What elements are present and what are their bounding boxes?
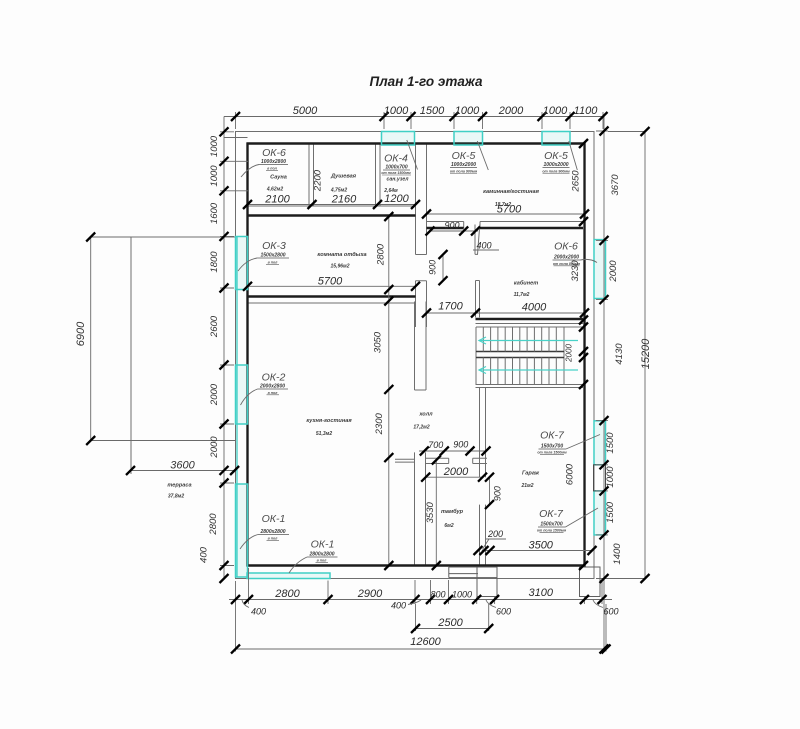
garage left wall [480,388,486,566]
5700 fireplace room [427,213,585,215]
6900 dim line [91,237,236,441]
svg-text:ОК-7: ОК-7 [540,430,565,442]
svg-text:1100: 1100 [574,105,599,117]
svg-text:2800х2800: 2800х2800 [308,552,334,558]
5700 rest room [248,285,416,287]
window OK-3 left [236,237,248,290]
stairs bottom wall [476,385,585,388]
bottom wall inner thick [247,564,586,566]
svg-text:ОК-5: ОК-5 [544,150,568,162]
svg-text:1000: 1000 [209,135,220,157]
tambour left wall [415,452,426,565]
wall sauna/shower [309,144,314,207]
cabinet left wall [476,281,480,318]
svg-text:1400: 1400 [612,543,623,565]
ticks stairs 2000 [579,347,588,356]
cabinet bottom thick [476,318,585,320]
ticks 6900 [86,233,95,242]
top wall inner thick [247,142,586,144]
svg-text:6900: 6900 [75,321,87,346]
svg-text:ОК-2: ОК-2 [262,372,286,384]
windows cyan [236,132,606,579]
ticks 5700 rest room [243,282,252,291]
svg-text:3100: 3100 [529,587,554,599]
svg-text:6м2: 6м2 [444,523,453,529]
svg-text:4130: 4130 [614,343,625,365]
svg-text:терраса: терраса [167,483,191,489]
svg-text:2600: 2600 [209,315,220,338]
svg-text:1600: 1600 [209,202,220,224]
terrace outline [131,237,236,471]
stair direction arrows cyan [479,337,578,374]
svg-text:3530: 3530 [425,502,436,524]
ticks row2 row3 [411,624,420,633]
3600 dim line [131,443,236,474]
3530 tambour [435,460,437,566]
svg-text:11,7м2: 11,7м2 [514,292,530,298]
svg-text:1000: 1000 [455,105,480,117]
bottom row3 12600 [236,604,607,652]
svg-text:2650: 2650 [571,170,582,193]
svg-text:2100: 2100 [264,194,290,206]
svg-text:5000: 5000 [293,105,318,117]
svg-text:кабинет: кабинет [514,280,538,287]
fireplace room bottom wall thin [427,222,585,229]
window callout OK-7 bottom [537,508,598,532]
svg-text:2160: 2160 [331,194,357,206]
fireplace room bottom thick [427,227,585,229]
svg-text:1500: 1500 [605,501,616,523]
top wall inner thin [248,206,416,216]
svg-text:51,3м2: 51,3м2 [316,431,332,437]
ticks top chain [231,112,608,121]
svg-text:каминная/гостиная: каминная/гостиная [483,189,540,195]
left chain line [223,117,225,579]
right chain2 extensions [596,131,608,579]
window OK-1 left [236,484,248,577]
sauna row dims 2100 2160 1200 [248,204,416,206]
svg-text:в пол: в пол [267,167,278,171]
svg-text:1700: 1700 [438,301,463,313]
svg-text:3050: 3050 [373,331,384,353]
svg-text:кухня-гостиная: кухня-гостиная [306,418,352,424]
ticks 900 door [426,227,435,236]
window OK-1 bottom [247,573,330,579]
svg-text:4,62м2: 4,62м2 [266,187,283,193]
svg-text:2500: 2500 [437,617,463,629]
ticks 3600 [126,466,135,475]
stairs [476,327,564,385]
svg-text:1000х700: 1000х700 [385,165,407,171]
left wall window sill line cyan [236,237,238,577]
cabinet bottom / stairs top [476,324,585,328]
svg-text:400: 400 [391,601,406,611]
700 900 hall [419,450,487,452]
svg-text:3500: 3500 [528,540,553,552]
900 fireplace door [430,230,478,232]
ticks sauna row [243,200,252,209]
svg-text:37,8м2: 37,8м2 [168,494,184,500]
window callout OK-7 top [537,430,600,455]
svg-text:1800: 1800 [209,251,220,273]
top chain line [224,116,604,118]
porch steps [449,567,600,597]
leaders bottom [242,539,603,608]
svg-text:900: 900 [444,221,459,231]
svg-text:1000: 1000 [452,590,472,600]
right chain2 labels [605,174,625,565]
top extension lines [236,112,604,129]
svg-text:800: 800 [430,590,445,600]
svg-text:сан.узел: сан.узел [386,177,409,183]
hall bottom stubs [395,458,487,463]
svg-text:3600: 3600 [170,460,195,472]
window callout OK-6 sauna [241,147,288,177]
svg-text:в пол: в пол [317,559,328,563]
svg-text:400: 400 [476,241,491,251]
svg-text:2800: 2800 [376,243,387,266]
svg-text:18,7м2: 18,7м2 [495,202,511,208]
svg-text:от пола 900мм: от пола 900мм [542,170,570,174]
wall wc/fireplace room + corridor wall [416,144,427,328]
svg-text:1000: 1000 [605,466,616,488]
right chain2 [603,117,605,650]
bottom row labels [251,587,619,648]
door triangle fireplace room [475,225,480,255]
svg-text:2,64м: 2,64м [383,188,398,194]
svg-text:1200: 1200 [384,193,409,205]
window callout OK-4 [381,140,417,175]
rest room bottom wall thin [248,302,416,304]
ticks 3530 [432,456,441,465]
ticks vertical 2800/3050/2300 [384,212,393,221]
svg-text:2000: 2000 [498,105,524,117]
ticks left chain [220,127,229,583]
window callout OK-1 left [240,513,289,549]
svg-text:4000: 4000 [522,302,547,314]
svg-text:2300: 2300 [374,413,385,436]
svg-text:ОК-7: ОК-7 [539,508,564,520]
window callout OK-2 [241,372,289,406]
svg-text:ОК-6: ОК-6 [554,241,578,253]
svg-text:400: 400 [251,607,266,617]
svg-text:2200: 2200 [313,169,324,192]
svg-text:6000: 6000 [565,463,576,485]
room labels [167,174,540,530]
svg-text:2000х2000: 2000х2000 [553,255,579,261]
ticks right inner chain [579,139,588,148]
dimension lines [91,112,645,652]
svg-text:в пол: в пол [268,261,279,265]
svg-text:1000х2000: 1000х2000 [543,162,568,168]
svg-text:15,96м2: 15,96м2 [331,264,350,270]
ticks 2000 tambour [421,473,430,482]
left chain labels [199,135,221,563]
window OK-5 top 2 [542,132,570,146]
window OK-6 right [594,240,606,299]
ticks 3500 + 200 cluster [474,546,483,555]
svg-text:1500х2800: 1500х2800 [260,253,285,259]
svg-text:ОК-3: ОК-3 [262,240,286,252]
svg-text:2000х2800: 2000х2800 [259,384,285,390]
svg-text:в пол: в пол [268,537,279,541]
1700 + 4000 [427,312,585,314]
window callout OK-5 first [450,141,488,174]
svg-text:3670: 3670 [610,174,621,196]
svg-text:ОК-1: ОК-1 [311,539,335,551]
window OK-4 top [382,132,415,146]
svg-text:4,75м2: 4,75м2 [330,188,347,194]
svg-text:600: 600 [603,607,618,617]
svg-text:ОК-6: ОК-6 [262,147,286,159]
svg-text:тамбур: тамбур [441,508,464,515]
2000 tambour [426,476,483,478]
ticks 700 900 [420,447,429,456]
svg-text:1000: 1000 [543,105,568,117]
svg-text:1500х700: 1500х700 [540,522,562,528]
svg-text:2000: 2000 [209,436,220,459]
svg-text:Душевая: Душевая [330,174,357,180]
left wall inner thick [246,143,248,567]
svg-text:2800: 2800 [208,513,219,536]
svg-text:от пола 900мм: от пола 900мм [450,170,478,174]
window OK-2 left [236,365,248,424]
3500 dim [482,550,592,552]
window callout OK-5 second [542,141,577,174]
svg-text:от пола 1500мм: от пола 1500мм [381,171,411,175]
ticks 1700 4000 [422,309,431,318]
svg-text:900: 900 [453,440,468,450]
svg-text:2800: 2800 [274,588,300,600]
left extension lines [220,132,248,566]
svg-text:холл: холл [418,412,433,418]
window callout OK-1 bottom [289,539,338,574]
top chain labels [293,105,598,117]
svg-text:1500х700: 1500х700 [541,444,563,450]
window OK-7 right bottom [594,491,606,535]
svg-text:Сауна: Сауна [270,175,287,181]
rest room bottom thick [248,295,416,297]
svg-text:ОК-4: ОК-4 [384,153,408,165]
svg-text:2900: 2900 [357,588,383,600]
kitchen/hall wall [415,302,427,391]
window OK-7 right top [594,421,606,465]
svg-text:600: 600 [496,607,511,617]
bottom row1 [229,599,612,601]
svg-text:12600: 12600 [410,636,441,648]
svg-text:комната отдыха: комната отдыха [317,252,366,258]
svg-text:от пола 1500мм: от пола 1500мм [537,528,567,532]
svg-text:1000: 1000 [209,165,220,187]
svg-text:21м2: 21м2 [520,483,533,489]
svg-text:900: 900 [428,260,438,275]
room interior dims [264,169,554,551]
right chain3 [608,132,645,579]
sauna row bottom thick [248,214,416,216]
svg-text:1000х2800: 1000х2800 [261,159,286,165]
window callout OK-6 right [553,241,598,266]
svg-text:Гараж: Гараж [522,471,540,477]
svg-text:2000: 2000 [608,260,619,283]
svg-text:в пол: в пол [268,391,279,395]
900 garage door [489,477,491,504]
ticks 5700 fireplace [422,210,431,219]
svg-text:от пола 800мм: от пола 800мм [553,262,581,266]
pier between OK-7 windows [594,465,606,491]
window callout OK-3 [238,240,289,271]
400 cabinet door underline [473,249,499,251]
right wall inner thick [583,143,585,567]
svg-text:2000: 2000 [443,466,469,478]
svg-text:1500: 1500 [605,432,616,454]
wall shower/wc [376,144,381,207]
svg-text:2000: 2000 [565,344,574,363]
svg-text:2800х2800: 2800х2800 [259,529,285,535]
bottom row1 extensions [236,568,603,604]
outer wall thin edges [236,132,595,579]
ticks bottom row1 [231,595,240,604]
bottom row2 2500 [416,604,489,631]
svg-text:200: 200 [487,529,503,539]
svg-text:ОК-5: ОК-5 [452,150,476,162]
svg-text:1500: 1500 [420,105,445,117]
svg-text:400: 400 [199,546,210,563]
svg-text:900: 900 [493,486,503,501]
ticks 900 garage door [485,473,494,482]
svg-text:17,2м2: 17,2м2 [413,425,429,431]
svg-text:от пола 1500мм: от пола 1500мм [537,450,567,454]
ticks right chain2 [600,127,609,136]
svg-text:700: 700 [428,440,443,450]
svg-text:1000: 1000 [384,105,409,117]
svg-text:План 1-го этажа: План 1-го этажа [370,74,483,89]
svg-text:5700: 5700 [318,276,343,288]
right inner chain [583,144,585,566]
svg-text:15200: 15200 [640,338,652,369]
200 wall dim [486,538,506,540]
window OK-5 top 1 [454,132,483,146]
ticks right chain3 [641,127,650,136]
right inner chain labels [565,170,582,485]
svg-text:2000: 2000 [209,383,220,406]
vertical dim 2800/3050/2300 [388,217,390,566]
svg-text:1000х2000: 1000х2000 [451,162,476,168]
svg-text:ОК-1: ОК-1 [262,513,286,525]
